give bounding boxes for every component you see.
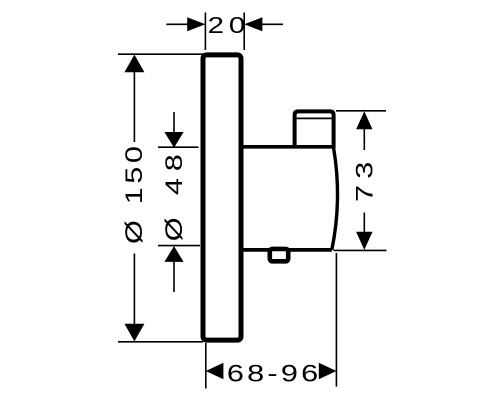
dim 68-96: left extension line [205,343,207,389]
svg-text:68-96: 68-96 [227,359,322,386]
dim 68-96: right extension line [335,253,337,387]
dim 20: right extension line [243,13,245,51]
dim 73: top leader [336,110,386,112]
dim 20: right leader [262,23,283,25]
valve body bottom line [241,248,332,252]
dim 73: bottom leader [334,249,387,251]
dim 20: right arrow [244,17,262,31]
dim 73: lower line segment [363,213,365,235]
svg-text:73: 73 [350,155,377,202]
dim 150: top arrow [124,55,144,73]
dim 48: upper tick [158,146,199,148]
dim 48: upper arrow (down) [164,132,183,148]
svg-text:Ø 48: Ø 48 [160,147,187,241]
dim 73: top arrow (up) [356,111,372,129]
dim 48: lower tick [158,245,200,247]
valve body top line [241,145,334,149]
dim 68-96: left arrow [206,363,224,380]
dim 20: left leader [166,23,188,25]
valve body right curved edge [332,148,338,250]
dim 48: lower line segment [173,262,175,292]
dim 20: left extension line [204,13,206,51]
dim 73: bottom arrow (down) [356,232,372,250]
dim 68-96: right arrow [319,363,337,380]
cartridge stem outline [295,111,334,148]
dim 73: upper line segment [363,128,365,151]
dim 48: upper line segment [173,112,175,133]
svg-text:Ø 150: Ø 150 [120,142,147,244]
dim 150: lower line segment [133,254,135,326]
escutcheon plate (side view) [203,55,241,340]
dim 150: top extension line [118,53,205,55]
dim 150: bottom extension line [118,341,203,343]
dim 150: upper line segment [133,71,135,142]
svg-text:20: 20 [208,12,251,39]
dim 48: lower arrow (up) [164,246,183,262]
dim 20: left arrow [187,17,205,31]
volume stop tab [270,249,288,261]
dim 150: bottom arrow [124,324,144,342]
stem cap inner line [297,117,332,119]
